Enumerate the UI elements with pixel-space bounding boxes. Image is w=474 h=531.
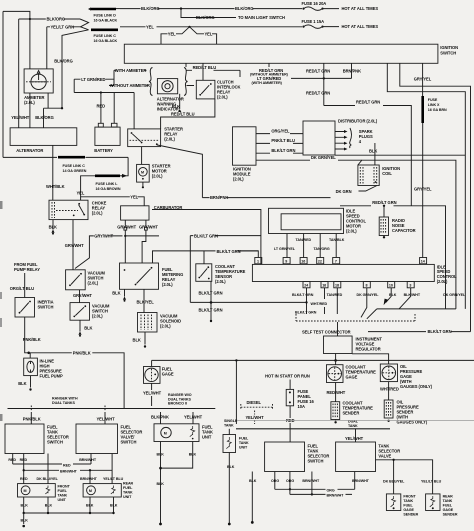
BRN/WHT collector h2 <box>290 493 352 495</box>
vacuum solenoid ground <box>144 332 146 345</box>
wire: ignition run circuit right edge B <box>400 63 471 331</box>
svg-text:(2.0L): (2.0L) <box>346 228 357 233</box>
wire: RED/LT GRN run right <box>324 106 412 207</box>
wire fuse link L feed <box>121 157 128 175</box>
svg-text:BLK: BLK <box>133 338 141 343</box>
svg-text:BRN/WHT: BRN/WHT <box>302 479 320 483</box>
svg-text:RED: RED <box>97 103 106 108</box>
svg-text:YEL: YEL <box>77 191 85 196</box>
motor stubs to pins <box>286 234 288 258</box>
svg-text:CAPACITOR: CAPACITOR <box>392 228 416 233</box>
single tank unit box <box>223 435 236 453</box>
svg-text:16 GA BRN: 16 GA BRN <box>428 108 447 112</box>
svg-text:BLK: BLK <box>21 518 29 522</box>
wire: RED/LT GRN + BRN/PNK header <box>291 77 352 79</box>
ignition module box <box>233 127 257 165</box>
wire to fuse panel <box>289 380 291 390</box>
svg-text:HOT AT ALL TIMES: HOT AT ALL TIMES <box>342 24 379 29</box>
coolant temperature gauge <box>327 365 344 383</box>
svg-text:BRN/WHT: BRN/WHT <box>327 494 345 498</box>
fuel metering relay <box>120 263 159 289</box>
svg-text:BLK: BLK <box>84 326 92 331</box>
oil pressure gauge <box>380 364 397 382</box>
junction to radio capacitor <box>383 205 385 207</box>
svg-text:FUSE: FUSE <box>428 98 438 102</box>
svg-text:ORG: ORG <box>271 479 279 483</box>
ignition switch box <box>124 44 438 63</box>
svg-text:YEL/WHT: YEL/WHT <box>97 416 116 421</box>
dashed YEL/WHT diesel alt wire <box>254 411 256 425</box>
wire YEL/WHT stub <box>192 412 194 424</box>
svg-text:UNIT: UNIT <box>239 445 248 449</box>
svg-text:TAN/ORG: TAN/ORG <box>314 247 330 251</box>
svg-text:(2.0L): (2.0L) <box>215 279 226 284</box>
svg-text:BLK/WHT: BLK/WHT <box>404 293 421 297</box>
pins row below bus <box>303 282 310 288</box>
svg-text:TO MAIN LIGHT SWITCH: TO MAIN LIGHT SWITCH <box>238 15 285 20</box>
svg-text:14 GA GREEN: 14 GA GREEN <box>63 169 87 173</box>
wire: distributor bottom run right <box>335 154 465 156</box>
wire BLK into coil top <box>374 143 376 165</box>
svg-text:YEL/LT BLU: YEL/LT BLU <box>421 480 442 484</box>
svg-text:BLK/ORG: BLK/ORG <box>196 15 215 20</box>
svg-text:BRN/WHT: BRN/WHT <box>352 479 370 483</box>
valve right wire to rear sender <box>376 460 433 494</box>
wire: clutch relay bottom to starter relay RED/LT BLU <box>161 99 215 129</box>
svg-text:BRN/WHT: BRN/WHT <box>80 477 98 481</box>
common ground tail <box>23 513 25 524</box>
svg-text:(2.0L): (2.0L) <box>217 94 228 99</box>
svg-text:DISTRIBUTOR (2.0L): DISTRIBUTOR (2.0L) <box>338 119 378 124</box>
svg-text:BLK/PNK: BLK/PNK <box>151 414 169 419</box>
bronco unit wires BLK BLK <box>160 442 162 524</box>
wire: BLK/LT GRN right edge run to IVR <box>368 331 471 333</box>
svg-text:BLK/ORG: BLK/ORG <box>235 6 254 11</box>
wire: GRY/WHT from vacuum switch up and right <box>75 236 159 269</box>
wire single tank feed <box>235 360 237 424</box>
sensor top wire <box>203 251 205 264</box>
wire WHT/RED to oil sender <box>388 382 390 400</box>
carburetor box <box>121 206 149 220</box>
grey scan stripe <box>236 420 474 422</box>
svg-text:BLK: BLK <box>369 149 377 154</box>
svg-text:FUSE LINK C: FUSE LINK C <box>94 34 117 38</box>
svg-text:(2.0L): (2.0L) <box>92 210 103 215</box>
wire: fuse link C 14GA line <box>3 156 97 158</box>
svg-text:SENDER: SENDER <box>403 512 418 516</box>
wire: instrument feed line y=360 <box>152 359 474 361</box>
svg-text:YEL/LT BLU: YEL/LT BLU <box>103 477 124 481</box>
bronco fuel tank unit <box>154 424 199 442</box>
alternator box <box>10 128 77 146</box>
svg-text:YEL/WHT: YEL/WHT <box>345 436 364 441</box>
svg-text:LINK X: LINK X <box>428 103 440 107</box>
brace left <box>149 68 153 96</box>
svg-text:8: 8 <box>366 284 368 288</box>
front tank fuel gage sender <box>386 494 400 511</box>
svg-text:REGULATOR: REGULATOR <box>356 346 381 351</box>
svg-text:PUMP RELAY: PUMP RELAY <box>14 267 40 272</box>
wire: branch to main light switch <box>181 9 236 18</box>
svg-text:BLK: BLK <box>45 503 53 507</box>
choke relay box <box>49 200 88 219</box>
svg-text:BLK/ORG: BLK/ORG <box>35 115 54 120</box>
svg-text:RED/LT GRN: RED/LT GRN <box>306 91 330 96</box>
svg-text:BLK: BLK <box>172 104 180 109</box>
fuse 16 symbol <box>302 8 304 10</box>
svg-text:GRY/WHT: GRY/WHT <box>117 225 136 230</box>
ammeter dial <box>31 74 46 89</box>
junction dot on BLK/ORG line <box>180 7 182 9</box>
svg-text:GRY/WHT: GRY/WHT <box>73 293 92 298</box>
wire GRY/WHT between vacuum switches <box>79 290 81 303</box>
wire: YEL branch into ignition switch <box>188 26 190 28</box>
svg-text:ORG/YEL: ORG/YEL <box>271 128 290 133</box>
svg-text:UNIT: UNIT <box>202 435 212 440</box>
svg-text:WITH AMMETER: WITH AMMETER <box>115 68 147 73</box>
svg-text:M: M <box>164 431 167 435</box>
fuse 1 symbol <box>302 26 304 28</box>
svg-text:24: 24 <box>304 284 308 288</box>
wire: ammeter bottom left to alternator <box>29 93 31 128</box>
ground BLK under brace <box>179 94 181 109</box>
svg-text:3: 3 <box>409 284 411 288</box>
svg-text:RED: RED <box>63 463 71 467</box>
svg-text:BRN/WHT: BRN/WHT <box>60 470 78 474</box>
ignition coil box <box>358 165 379 186</box>
fuse link L bar <box>95 175 120 178</box>
svg-text:BLK/LT GRN: BLK/LT GRN <box>292 293 314 297</box>
svg-text:16 GA BROWN: 16 GA BROWN <box>96 187 121 191</box>
in-line fuel pump <box>24 358 38 376</box>
svg-text:GAGE: GAGE <box>443 508 454 512</box>
svg-text:ORG: ORG <box>286 479 294 483</box>
divider line lower <box>236 428 390 430</box>
svg-text:TAN/BLK: TAN/BLK <box>329 238 345 242</box>
alternator warning indicator <box>157 79 177 94</box>
svg-text:GAGE: GAGE <box>162 372 174 377</box>
svg-text:WHT/BLK: WHT/BLK <box>46 184 65 189</box>
svg-text:(2.0L): (2.0L) <box>233 177 244 182</box>
wire: LT GRN/RED with-ammeter line <box>74 78 114 80</box>
svg-text:10: 10 <box>389 284 393 288</box>
svg-text:RED: RED <box>8 458 16 462</box>
svg-text:TANK: TANK <box>403 499 413 503</box>
svg-text:SINGLE: SINGLE <box>224 419 238 423</box>
pump ground <box>30 376 32 388</box>
svg-text:TANK: TANK <box>58 493 68 497</box>
svg-text:BRONCO II: BRONCO II <box>168 402 187 406</box>
svg-text:BLK: BLK <box>227 465 235 469</box>
svg-text:M: M <box>24 489 27 493</box>
svg-text:(2.0L): (2.0L) <box>88 280 99 285</box>
svg-text:PNK/BLK: PNK/BLK <box>73 351 91 356</box>
svg-text:(2.0L): (2.0L) <box>437 279 448 284</box>
svg-text:BLK: BLK <box>157 452 165 456</box>
svg-text:BLK: BLK <box>389 293 397 297</box>
wire: fork with/without ammeter <box>113 70 115 85</box>
starter motor ground <box>142 182 144 186</box>
wire: ammeter bottom right jog <box>47 93 49 108</box>
svg-text:BLK/LT GRN: BLK/LT GRN <box>271 148 295 153</box>
fuel metering relay ground BLK <box>124 289 126 296</box>
wire DK BLU/YEL down <box>47 454 49 484</box>
wire BLK/LT GRN loop <box>190 235 261 237</box>
svg-text:FUEL: FUEL <box>403 504 413 508</box>
svg-text:RED/LT GRN: RED/LT GRN <box>372 200 396 205</box>
oil pressure sender <box>384 400 393 418</box>
svg-text:9: 9 <box>285 260 287 264</box>
wire to HOT AT ALL TIMES 2 <box>323 26 340 28</box>
svg-text:DK GRN/YEL: DK GRN/YEL <box>357 293 380 297</box>
wire: GRY/YEL to fuse link X <box>422 63 424 96</box>
wire BRN/WHT into unit <box>89 470 91 483</box>
wire: pin10 ground arrow <box>386 288 391 303</box>
svg-text:BLK: BLK <box>189 452 197 456</box>
svg-text:FUEL PUMP: FUEL PUMP <box>40 373 63 378</box>
svg-text:ORG: ORG <box>327 488 335 492</box>
svg-text:SENDER: SENDER <box>443 512 458 516</box>
fuse link X bar <box>421 96 424 123</box>
wire: pin16 down <box>324 288 326 299</box>
svg-text:TAN/RED: TAN/RED <box>327 293 343 297</box>
svg-text:PNK/BLK: PNK/BLK <box>23 337 41 342</box>
wire from fuse link L to choke YEL <box>81 176 95 200</box>
svg-text:RED/WHT: RED/WHT <box>327 390 346 395</box>
svg-text:GAUGES (ONLY): GAUGES (ONLY) <box>400 384 433 389</box>
wire: YEL line to carburetor <box>81 197 145 206</box>
starter motor <box>137 164 150 182</box>
svg-text:16: 16 <box>322 284 326 288</box>
wire YEL/WHT stub <box>104 406 106 411</box>
svg-text:TANK: TANK <box>123 490 133 494</box>
vacuum switch 1 <box>66 270 86 290</box>
fuel tank selector switch (left) <box>5 424 44 454</box>
svg-text:DK BLU/YEL: DK BLU/YEL <box>383 480 405 484</box>
wire: without-ammeter jog at x=74.2 <box>73 79 75 92</box>
svg-text:GRY/WHT: GRY/WHT <box>65 243 84 248</box>
svg-text:BLK/LT GRN: BLK/LT GRN <box>199 291 223 296</box>
svg-text:16 GA BLACK: 16 GA BLACK <box>94 39 118 43</box>
vacuum solenoid <box>138 313 158 333</box>
coolant temperature sender <box>331 402 340 420</box>
wire: DK GRN from coil bottom <box>359 186 378 192</box>
svg-text:FUEL: FUEL <box>239 437 249 441</box>
wire: DK GRN/YEL module to coil line <box>256 159 362 161</box>
svg-text:BLK/LT GRN: BLK/LT GRN <box>217 249 241 254</box>
svg-text:LT GRN/RED: LT GRN/RED <box>81 77 105 82</box>
wire: pin3 diagonal <box>399 288 411 309</box>
wire: vertical x=29.9 into ammeter <box>29 19 31 69</box>
front fuel tank unit <box>18 484 56 497</box>
wire: fuse L arrow to starter motor <box>120 175 122 177</box>
wire: horizontal collector to coil line <box>377 308 456 310</box>
svg-text:BLK/LT GRN: BLK/LT GRN <box>428 329 452 334</box>
svg-text:(2.0L): (2.0L) <box>164 137 175 142</box>
wire: right side of brace to RED/LT BLU <box>187 70 241 85</box>
svg-text:HOT IN START OR RUN: HOT IN START OR RUN <box>265 373 310 378</box>
vacuum switch 2 ground <box>79 320 81 331</box>
svg-text:16: 16 <box>301 260 305 264</box>
wire: fan-in diagonals to fuse links <box>62 19 89 51</box>
svg-text:LT GRN/YEL: LT GRN/YEL <box>274 247 296 251</box>
svg-text:YEL: YEL <box>168 31 176 36</box>
wire RED crossover h1 <box>13 463 91 465</box>
svg-text:BRN/WHT: BRN/WHT <box>79 458 97 462</box>
svg-text:SWITCH: SWITCH <box>38 304 54 309</box>
single tank unit ground <box>228 453 230 524</box>
svg-text:(2.0L): (2.0L) <box>162 282 173 287</box>
svg-text:GAGE: GAGE <box>403 508 414 512</box>
svg-text:YEL: YEL <box>130 194 138 199</box>
svg-text:SWITCH: SWITCH <box>47 440 63 445</box>
pins row on top of bus <box>255 258 262 264</box>
fuse panel <box>286 389 293 405</box>
rear fuel tank unit <box>83 484 121 497</box>
wire: BLK/ORG vertical from fuse link C <box>61 51 63 108</box>
wire BLK/PNK stub <box>160 412 162 424</box>
wire: ignition run circuit right edge A <box>387 63 465 309</box>
svg-text:FUEL: FUEL <box>123 486 133 490</box>
fuel selector valve switch (right box) <box>76 424 118 454</box>
svg-text:REAR: REAR <box>443 495 454 499</box>
divider line upper <box>8 408 216 410</box>
scan edge artifacts <box>0 201 3 209</box>
svg-text:GRY/WHT: GRY/WHT <box>94 233 113 238</box>
svg-text:BLK/LT GRN: BLK/LT GRN <box>199 308 223 313</box>
svg-text:VALVE: VALVE <box>378 454 391 459</box>
svg-text:FUSE LINK L: FUSE LINK L <box>96 182 119 186</box>
wire: RED/LT GRN horizontal to x=445.5 <box>340 206 446 309</box>
svg-text:PNK/LT BLU: PNK/LT BLU <box>271 138 295 143</box>
sensor bottom wire <box>210 281 212 320</box>
svg-text:BLK/ORG: BLK/ORG <box>47 17 66 22</box>
wire: RED/LT BLU ignition to clutch relay <box>202 63 204 80</box>
wire: pin8 to self test <box>361 288 367 318</box>
svg-text:22: 22 <box>318 260 322 264</box>
svg-text:GRY/YEL: GRY/YEL <box>414 187 432 192</box>
svg-text:FRONT: FRONT <box>403 495 416 499</box>
wire: starter relay diagonal BRN/PNK run <box>157 145 203 198</box>
fuse link D bar <box>91 8 117 11</box>
svg-text:DK GRN: DK GRN <box>336 189 352 194</box>
svg-text:BLK: BLK <box>49 224 57 229</box>
wire: YEL/LT GRN vertical into ammeter <box>46 27 48 69</box>
valve bottom wire BRN/WHT <box>354 472 356 490</box>
fuse link C 14 GA bar <box>58 156 85 159</box>
DK BLU/YEL wire to front sender <box>393 460 395 494</box>
svg-text:BLK/ORG: BLK/ORG <box>141 6 160 11</box>
wire: carburetor line to bus <box>152 210 261 265</box>
svg-text:BLK: BLK <box>112 291 120 296</box>
svg-text:PNK/BLK: PNK/BLK <box>23 416 41 421</box>
svg-text:BLK: BLK <box>157 482 165 486</box>
wire: pin18 down <box>336 288 338 314</box>
svg-text:YEL: YEL <box>146 24 154 29</box>
ground bus wires <box>23 497 25 513</box>
svg-text:SELF TEST CONNECTOR: SELF TEST CONNECTOR <box>302 330 351 335</box>
svg-text:FRONT: FRONT <box>58 485 71 489</box>
idle speed control motor outer box <box>269 208 344 233</box>
svg-text:BLK/LT GRN: BLK/LT GRN <box>295 311 317 315</box>
choke ground BLK <box>52 220 54 230</box>
wire: carb right stub down to relay <box>142 230 146 263</box>
svg-text:BRN/PNK: BRN/PNK <box>210 195 228 200</box>
svg-text:HOT AT ALL TIMES: HOT AT ALL TIMES <box>342 6 379 11</box>
svg-text:TANK: TANK <box>224 423 234 427</box>
selector switch bottom wires <box>251 472 253 523</box>
svg-text:YEL/WHT: YEL/WHT <box>246 415 265 420</box>
svg-text:FUEL: FUEL <box>443 504 453 508</box>
fuel gauge <box>151 360 153 366</box>
svg-text:BLK: BLK <box>21 503 29 507</box>
wire: IVR right to oil gauge <box>352 354 389 364</box>
svg-text:TANK: TANK <box>348 424 358 428</box>
wire: BLK/LT GRN feed to pin 1 <box>238 251 258 258</box>
svg-text:BLK/ORG: BLK/ORG <box>54 59 73 64</box>
svg-text:YEL/WHT: YEL/WHT <box>143 390 162 395</box>
svg-text:SWITCH: SWITCH <box>121 440 137 445</box>
wire inertia to pump <box>25 317 28 353</box>
vacuum switch 2 <box>70 303 90 321</box>
svg-text:(2.0L): (2.0L) <box>152 173 163 178</box>
ignition switch bottom stub x=269 to text block <box>268 63 270 67</box>
wire: YEL/LT GRN to fuse link C <box>47 26 81 28</box>
wire BLK/ORG horizontal to fuse link D <box>19 18 80 20</box>
svg-text:WITHOUT AMMETER: WITHOUT AMMETER <box>110 83 150 88</box>
fuse link C bar <box>91 28 118 31</box>
svg-text:UNIT: UNIT <box>123 495 132 499</box>
svg-text:14: 14 <box>421 260 425 264</box>
svg-text:RED: RED <box>20 477 28 481</box>
idle speed control motor inner box <box>281 214 341 230</box>
svg-text:REAR: REAR <box>123 482 134 486</box>
svg-text:YEL: YEL <box>205 31 213 36</box>
wire: top BLK/ORG feed line <box>3 11 30 19</box>
wire: GRY/YEL to pin 14 <box>422 123 424 258</box>
svg-text:DIESEL: DIESEL <box>247 400 262 405</box>
svg-text:M: M <box>141 170 144 174</box>
svg-text:BATTERY: BATTERY <box>94 148 113 153</box>
wire: ignition switch stub to brace <box>185 63 187 67</box>
svg-text:FUSE LINK C: FUSE LINK C <box>63 164 86 168</box>
wire: left border vertical <box>2 11 4 157</box>
svg-text:RED/LT GRN: RED/LT GRN <box>306 68 330 73</box>
carburetor stubs and pins <box>124 220 126 227</box>
wire: BLK/ORG top run to fuse 16 <box>120 8 302 10</box>
svg-text:FUSE 1 15A: FUSE 1 15A <box>302 19 325 24</box>
fuel tank selector switch <box>265 442 305 472</box>
battery box <box>95 127 120 145</box>
svg-text:BLK: BLK <box>18 381 26 386</box>
wire RED 1 <box>12 454 14 465</box>
wire BLK/YEL relay to vacuum solenoid <box>143 289 145 312</box>
svg-text:DK GRN/YEL: DK GRN/YEL <box>443 293 466 297</box>
svg-text:10A: 10A <box>298 404 305 409</box>
ammeter box <box>24 69 53 93</box>
svg-text:COIL: COIL <box>382 171 392 176</box>
svg-text:1: 1 <box>257 260 259 264</box>
wire: starter relay to starter motor <box>141 147 143 165</box>
idle speed control bus box <box>252 264 434 281</box>
svg-text:RED/LT BLU: RED/LT BLU <box>171 112 195 117</box>
svg-text:GAGE: GAGE <box>346 375 358 380</box>
svg-text:ALTERNATOR: ALTERNATOR <box>16 148 43 153</box>
rear tank fuel gage sender <box>426 494 440 511</box>
wire BLK/LT GRN relay top feed <box>153 251 259 263</box>
svg-text:RED/LT BLU: RED/LT BLU <box>193 65 217 70</box>
starter relay box <box>128 129 161 147</box>
